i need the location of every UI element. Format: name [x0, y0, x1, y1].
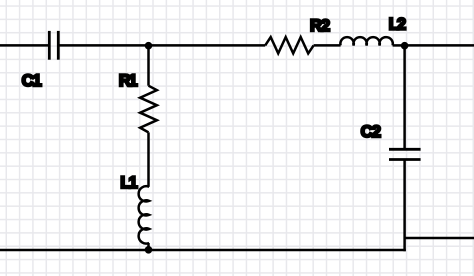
- svg-text:C2: C2: [361, 123, 381, 141]
- wire top-left from edge to C1: [0, 44, 48, 47]
- wire node B to right edge: [405, 44, 474, 47]
- resistor R1: [140, 86, 157, 133]
- wire bottom-right to edge: [405, 237, 474, 240]
- svg-text:R1: R1: [119, 72, 138, 90]
- capacitor C2: [389, 149, 421, 159]
- wire node A to R2: [149, 44, 266, 47]
- node A junction dot: [145, 42, 153, 50]
- wire bottom-left rail: [0, 249, 406, 252]
- svg-text:C1: C1: [22, 72, 42, 90]
- wire C2 to bottom corner: [403, 160, 406, 252]
- resistor R2: [265, 37, 313, 53]
- capacitor C1: [49, 31, 58, 60]
- svg-text:L1: L1: [120, 174, 137, 192]
- inductor L2: [340, 37, 392, 45]
- node C junction dot: [145, 246, 153, 254]
- svg-text:L2: L2: [389, 16, 406, 34]
- node B junction dot: [401, 42, 409, 50]
- wire L1 to bottom rail: [147, 243, 150, 250]
- wire L2 to node B: [393, 44, 405, 47]
- svg-text:R2: R2: [310, 17, 330, 35]
- wire node A down to R1: [147, 45, 150, 85]
- inductor L1: [139, 186, 149, 243]
- wire R1 to L1: [147, 132, 150, 186]
- wire R2 to L2: [314, 44, 341, 47]
- wire node B down to C2: [403, 45, 406, 149]
- wire C1 to node A: [59, 44, 148, 47]
